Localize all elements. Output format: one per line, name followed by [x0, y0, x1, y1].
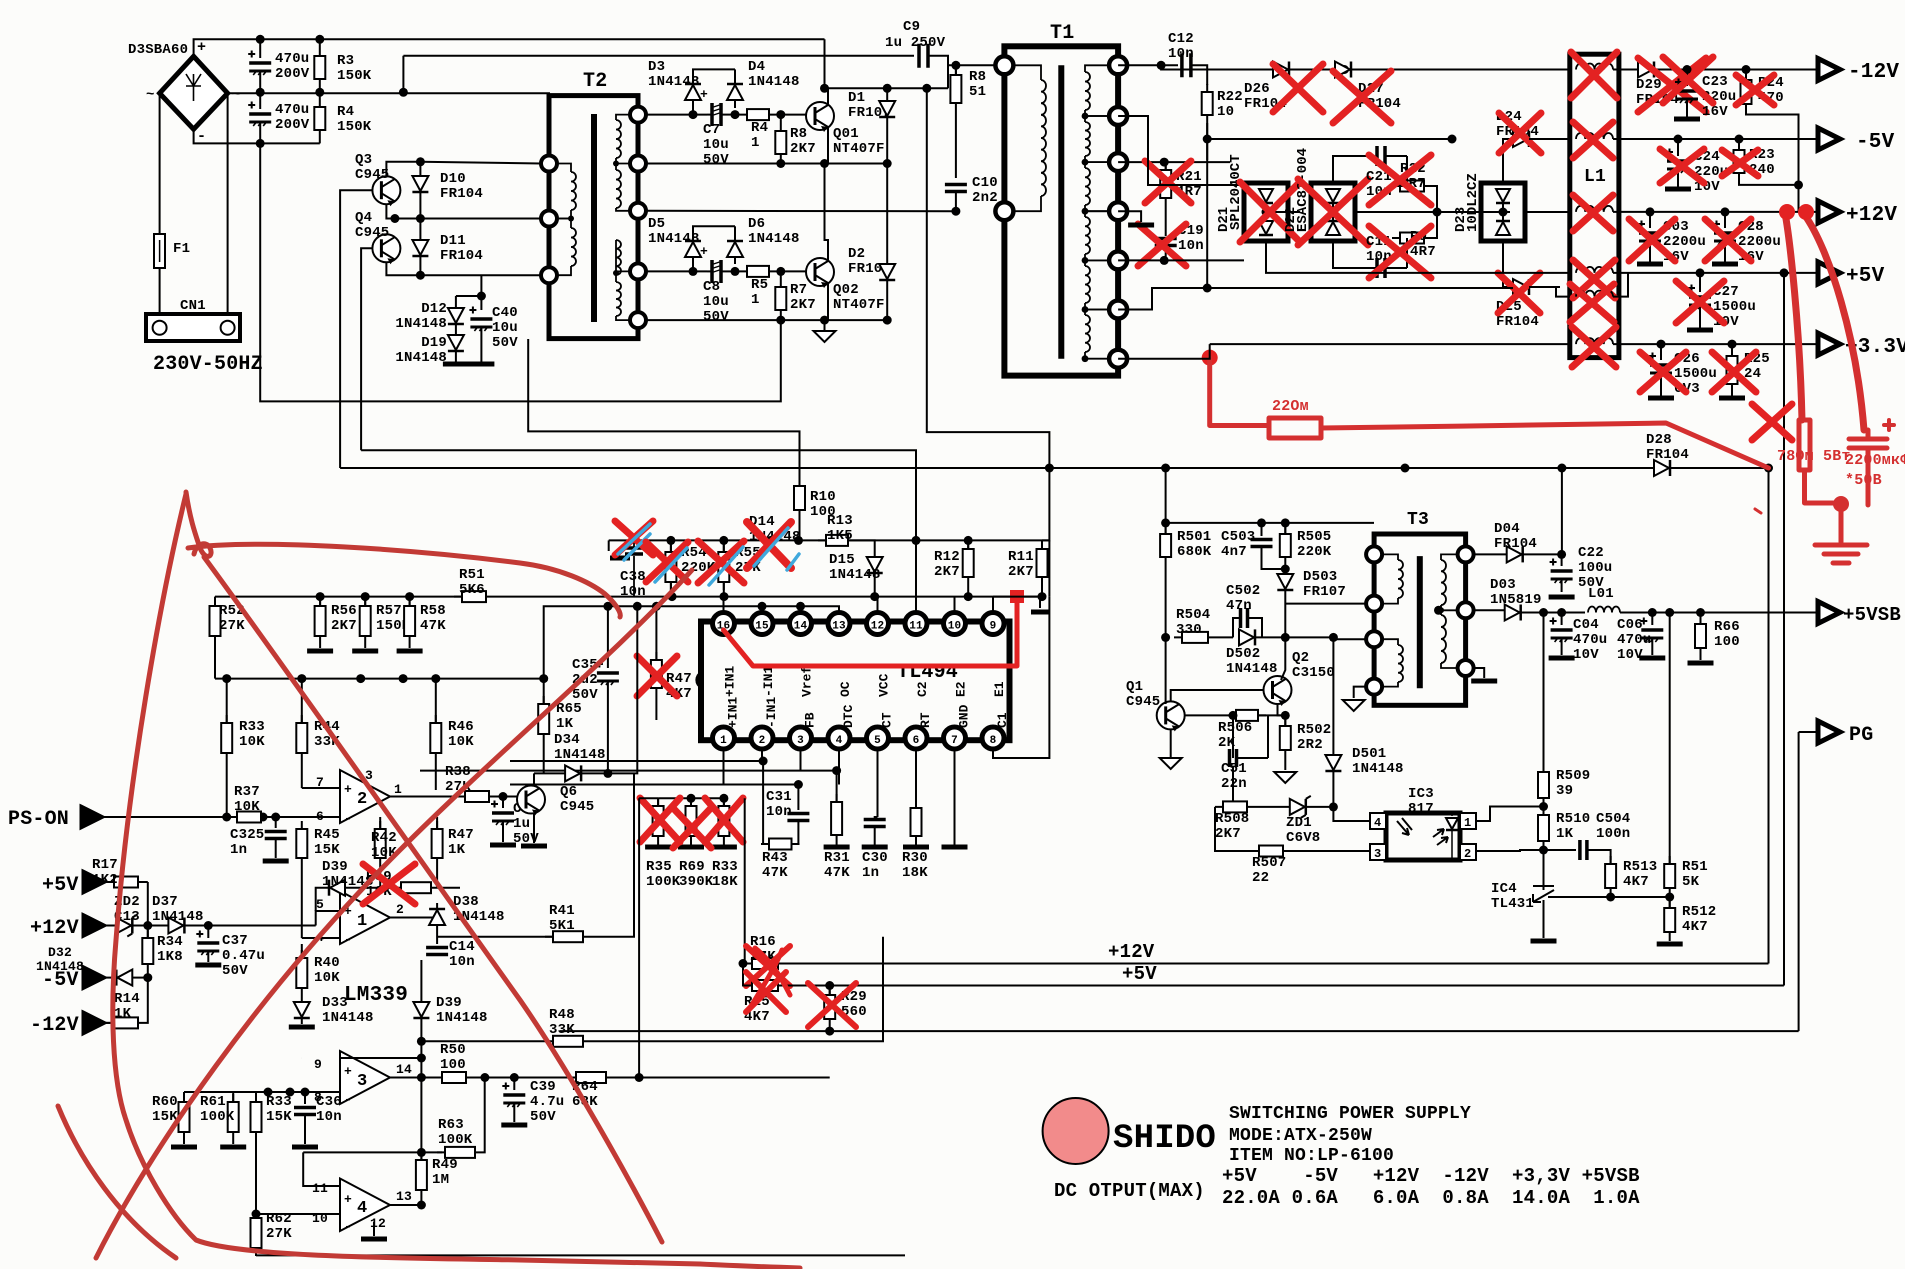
wire Q2 emitter down: [1278, 704, 1286, 715]
resistor R25 24: [1728, 340, 1737, 349]
diode D24 FR104: [1452, 138, 1503, 140]
wire pin6 RT down: [915, 749, 917, 808]
resistor R55 27K: [718, 544, 729, 590]
x-mark L1 coil1: [1571, 52, 1617, 98]
capacitor C03 2200u 16V: [1646, 207, 1655, 216]
resistor R52 27K: [214, 597, 216, 606]
resistor R51 5K: [1664, 856, 1675, 896]
svg-text:11: 11: [909, 621, 923, 633]
svg-text:F1: F1: [173, 241, 190, 257]
x-mark over C03: [1629, 219, 1675, 261]
svg-text:1: 1: [720, 735, 727, 747]
svg-text:+5VSB: +5VSB: [1843, 604, 1901, 626]
wire D28 row: [340, 467, 1768, 469]
diode D39a symbol: [319, 888, 321, 898]
ground stub T1 pin4: [1118, 211, 1141, 222]
resistor R8 51 (snubber): [951, 61, 960, 70]
capacitor C31 10n: [797, 785, 799, 811]
capacitor C8 10u 50V: [712, 260, 721, 283]
L1 coil +5V b: [1576, 291, 1613, 297]
wire -5V row: [1118, 115, 1152, 117]
svg-text:3: 3: [797, 735, 804, 747]
wire D22 mid to +12V rail: [1355, 211, 1510, 213]
resistor R45 15K: [301, 817, 303, 829]
wire op4 output: [390, 1204, 421, 1206]
resistor R7 2K7: [775, 279, 786, 318]
svg-text:DC OTPUT(MAX): DC OTPUT(MAX): [1054, 1180, 1205, 1202]
svg-text:2: 2: [396, 902, 404, 917]
comparator 3 LM339: [340, 1051, 390, 1104]
+5VSB rail: [1539, 608, 1548, 617]
diode D10 FR104: [419, 162, 421, 176]
terminal -5V: [1818, 128, 1840, 150]
wire T3 top rail left drop: [1165, 523, 1167, 534]
wire op3 minus row: [256, 1091, 340, 1093]
diode D39 lower 1N4148: [420, 960, 422, 1002]
IC TL494 body: [701, 622, 1010, 741]
capacitor C11 10n: [1377, 258, 1385, 278]
optocoupler IC3 817: [1386, 813, 1460, 860]
wire T1 pin5 row: [1118, 259, 1244, 261]
wire Q3 emitter to Q4 collector node: [386, 204, 420, 219]
wire row to C35: [544, 678, 609, 680]
inductor L01: [1588, 607, 1620, 613]
diode D2 FR107: [886, 164, 888, 265]
wire Q02 emitter row: [646, 319, 887, 321]
svg-text:6: 6: [913, 735, 920, 747]
transistor Q6 C945: [517, 786, 545, 816]
junction D12/C40: [419, 274, 421, 276]
T2 right internal wires: [616, 115, 630, 120]
T1 primary coil: [1041, 80, 1046, 196]
resistor R4 1 (driver): [739, 109, 777, 120]
svg-text:78Ом 5Вт: 78Ом 5Вт: [1777, 448, 1851, 465]
T2 secondary coils right: [616, 120, 621, 158]
capacitor C36 10n: [304, 1092, 306, 1104]
capacitor C35 2u2 50V: [608, 606, 610, 668]
svg-text:SWITCHING POWER SUPPLY: SWITCHING POWER SUPPLY: [1229, 1104, 1471, 1124]
wire +3.3V out of L1: [1613, 343, 1818, 345]
svg-text:4: 4: [357, 1199, 367, 1218]
blue strokes D14: [754, 528, 799, 570]
svg-text:1: 1: [1464, 816, 1471, 830]
transistor Q4 C945: [372, 234, 400, 264]
wire ground return bus: [560, 1030, 1799, 1032]
resistor R51 5K6: [454, 591, 494, 602]
svg-text:E1: E1: [992, 681, 1007, 697]
svg-text:C1210n: C1210n: [1168, 31, 1194, 62]
capacitor C40 10u 50V: [469, 307, 492, 332]
svg-text:1: 1: [394, 782, 402, 797]
capacitor C14 10n: [436, 925, 438, 944]
x-mark L1 coil3: [1573, 195, 1613, 231]
red resistor 78Ohm 5W: [1799, 420, 1841, 503]
wire op4 ground: [373, 1222, 375, 1236]
wires around D22: [1333, 156, 1371, 185]
wire left verticals below TL494: [638, 798, 640, 1077]
resistor R504 330: [1165, 637, 1167, 700]
T2 left internal wires: [557, 164, 571, 173]
wire E1 stub: [1017, 597, 1030, 610]
capacitor C12 10n: [1182, 53, 1191, 77]
ground under D19: [443, 362, 469, 367]
wire +5V out of L1: [1613, 272, 1818, 274]
wire -5V out of L1: [1613, 138, 1818, 140]
wire T1 pin6 link: [1118, 288, 1207, 310]
resistors R35 R69 R33 crossed: [639, 788, 745, 790]
resistor R47 4K7 crossed: [655, 606, 657, 660]
red ground: [1815, 504, 1867, 563]
resistor R64 68K: [568, 1072, 614, 1083]
diode D27 FR104: [1344, 69, 1570, 71]
capacitor C27 1500u 10V: [1696, 268, 1705, 277]
capacitor C04 470u 10V: [1561, 613, 1563, 626]
wire Q6 emitter: [533, 813, 535, 843]
resistor R30 18K: [911, 800, 922, 844]
resistor R42 10K: [375, 821, 386, 866]
x-mark over R23: [1722, 150, 1758, 176]
svg-text:VCC: VCC: [877, 673, 892, 697]
blue stroke R55: [709, 547, 743, 585]
resistor R22b 4R7: [1392, 181, 1432, 192]
svg-text:22Ом: 22Ом: [1272, 398, 1309, 415]
svg-text:SHIDO: SHIDO: [1113, 1120, 1216, 1158]
resistor R48 33K: [421, 1040, 545, 1042]
red cross big stroke A: [204, 557, 662, 1242]
red scribble R16/R15: [750, 948, 790, 1008]
wire row y784: [510, 784, 798, 786]
wire comparator supply row: [215, 678, 544, 680]
terminal -5V left: [83, 967, 105, 989]
svg-text:C4010u50V: C4010u50V: [492, 305, 518, 351]
capacitor C19 10n crossed: [1155, 239, 1177, 246]
svg-text:+12V: +12V: [1108, 941, 1155, 963]
transistor Q02 NT407F: [806, 258, 834, 288]
svg-text:R4833K: R4833K: [549, 1007, 575, 1038]
red cross big stroke B: [96, 570, 692, 1258]
wire +5V to node: [147, 882, 149, 926]
wire +3.3V into L1: [1559, 286, 1561, 288]
svg-text:2: 2: [357, 790, 367, 809]
svg-text:+12V: +12V: [1846, 204, 1897, 227]
svg-text:2200мкФ: 2200мкФ: [1845, 452, 1905, 469]
capacitor C22 100u 50V: [1557, 550, 1566, 559]
wire Q3 collector row: [386, 162, 541, 176]
svg-text:R122K7: R122K7: [934, 549, 960, 580]
capacitor C7 10u 50V: [712, 103, 721, 126]
svg-text:-IN1: -IN1: [764, 697, 779, 728]
diode D501 1N4148: [1332, 637, 1334, 755]
connector CN1: [146, 314, 240, 341]
diode D11 FR104: [419, 219, 421, 241]
x-mark over R47: [637, 656, 677, 696]
resistor R13 1K5: [818, 535, 856, 546]
svg-text:15: 15: [755, 621, 769, 633]
wire D25 +5V second into L1: [1529, 287, 1570, 297]
resistor R22 10: [1202, 84, 1213, 123]
T2 primary coil left lower: [571, 228, 576, 266]
wire TL494 upper pins row: [544, 606, 839, 678]
svg-text:C352u250V: C352u250V: [572, 657, 598, 703]
svg-text:R112K7: R112K7: [1008, 549, 1034, 580]
L1 coil +3.3V: [1576, 338, 1613, 344]
wire -5V row left segment: [1207, 138, 1452, 140]
red x-mark near resistor: [1752, 404, 1792, 440]
diode D32 1N4148: [105, 977, 117, 979]
node dots mid rail: [256, 88, 265, 97]
svg-text:14: 14: [794, 621, 808, 633]
resistor R61 100K: [232, 1092, 234, 1102]
wire bridge mid rail: [228, 93, 549, 95]
capacitor C12b 1u 50V: [499, 792, 508, 801]
svg-text:R562K7: R562K7: [331, 603, 357, 634]
wire to D12/C40 node: [480, 275, 482, 296]
resistor R21 4R7 crossed: [1118, 161, 1230, 163]
wire pin16 up: [723, 597, 725, 615]
L1 coil -12V: [1576, 64, 1613, 70]
svg-text:8: 8: [990, 735, 997, 747]
resistor R40 10K: [301, 944, 303, 958]
x-mark over D29: [1638, 58, 1706, 112]
wire Q01 emitter row: [646, 163, 887, 165]
wire Q4 node to T2: [395, 218, 548, 220]
terminal -12V left: [83, 1012, 105, 1034]
resistor R63 100K: [303, 1151, 442, 1153]
rectifier D21 SBL2040CT: [1244, 183, 1288, 241]
svg-text:R131K5: R131K5: [827, 513, 853, 544]
svg-text:+: +: [197, 39, 206, 56]
wire T3 tap to D03: [1434, 606, 1443, 615]
svg-text:IC3817: IC3817: [1408, 786, 1434, 817]
wire T1 pin3 to D21: [1118, 116, 1244, 185]
wire R22 snub vertical: [1206, 123, 1208, 139]
rectifier D22 ESAC83-004: [1192, 162, 1310, 185]
rectifier D23 10DL2CZ: [1118, 280, 1480, 310]
diode D38 1N4148: [436, 903, 438, 918]
svg-text:~: ~: [232, 87, 241, 103]
svg-text:R3310K: R3310K: [239, 719, 265, 750]
resistor R8 2K7: [775, 123, 786, 162]
terminal +3.3V: [1818, 333, 1840, 355]
wire D14/R13 row: [609, 539, 1050, 541]
wire op1 out row: [460, 888, 583, 937]
svg-text:+IN1: +IN1: [723, 666, 738, 697]
wire row y771: [420, 770, 837, 772]
wire to Q01 base: [777, 114, 806, 116]
svg-text:7: 7: [951, 735, 958, 747]
resistor R502 2R2: [1284, 715, 1286, 726]
svg-text:+: +: [344, 782, 352, 797]
svg-text:R3827K: R3827K: [445, 764, 471, 795]
wire +5V into L1: [1266, 241, 1570, 273]
transformer T2: [549, 96, 638, 339]
wire pin2 down: [761, 749, 763, 761]
T2 left pins: [541, 156, 557, 172]
wire row y761: [510, 760, 763, 762]
resistor R33c 15K: [267, 1092, 269, 1102]
x-mark over R33b: [705, 798, 743, 842]
svg-text:GND: GND: [957, 704, 972, 728]
svg-text:-: -: [344, 811, 352, 826]
diode D28 FR104: [1654, 460, 1670, 476]
resistor R9 4R7: [1392, 233, 1432, 244]
x-mark over C19: [1138, 224, 1186, 266]
wire Vref rail LM339: [215, 596, 462, 598]
wire T2 pin3 row to C10: [646, 210, 956, 212]
svg-text:1: 1: [357, 912, 367, 931]
svg-text:R171K2: R171K2: [92, 857, 118, 888]
resistor R3 150K: [314, 48, 325, 87]
wire T3 pin4 to D04: [1474, 553, 1506, 555]
x-mark over R55: [698, 541, 744, 583]
svg-text:-5V: -5V: [1856, 131, 1895, 154]
wire T2 pin1 row: [646, 114, 707, 116]
wire TL431 ref to divider: [1544, 896, 1611, 898]
svg-text:9: 9: [990, 621, 997, 633]
wire bridge right to CN1: [227, 93, 229, 321]
wire bridge top rail: [194, 39, 825, 56]
svg-text:R3018K: R3018K: [902, 850, 928, 881]
svg-text:2: 2: [759, 735, 766, 747]
T1 secondary coils: [1085, 72, 1090, 110]
resistor R54 220K: [665, 544, 676, 590]
wire op3 plus: [340, 1057, 421, 1059]
resistor R58 47K: [409, 597, 411, 606]
diode D5 1N4148: [693, 226, 735, 271]
svg-text:11: 11: [312, 1181, 328, 1196]
T1 left pins: [995, 56, 1013, 74]
TL494 pins bottom: [713, 727, 735, 749]
wire +12V out of L1: [1613, 211, 1818, 213]
resistor R37 10K: [229, 812, 269, 823]
resistor R57 150K: [364, 597, 366, 606]
wire C9 rail drop: [402, 56, 404, 93]
svg-text:L01: L01: [1588, 586, 1614, 602]
red wire from +12V rail: [1785, 213, 1802, 420]
logo circle SHIDO: [1043, 1098, 1109, 1164]
blue strokes C38: [618, 524, 650, 560]
svg-text:R50100: R50100: [440, 1042, 466, 1073]
T3 coils right: [1441, 560, 1446, 605]
x-mark L1 coil4: [1573, 260, 1615, 298]
wire op3 output row: [390, 1077, 439, 1079]
resistor R49 1M: [420, 1152, 422, 1160]
red left vertical stroke: [113, 494, 700, 1264]
svg-text:R4610K: R4610K: [448, 719, 474, 750]
diode D03 1N5819: [1505, 605, 1521, 621]
wire op2 output: [390, 796, 462, 798]
capacitor C26 1500u 6V3: [1657, 340, 1666, 349]
comparator 1 LM339: [340, 891, 390, 944]
wire ZD1 node down to IC3: [1333, 807, 1371, 821]
svg-text:R66100: R66100: [1714, 619, 1740, 650]
wire IC3 pin2 right: [1476, 850, 1544, 852]
T1 secondary internal wires: [1085, 65, 1110, 72]
resistor R66 100: [1696, 608, 1705, 617]
wire Q02 collector: [825, 164, 829, 262]
x-mark over D25: [1498, 273, 1540, 313]
comparator 4 LM339: [340, 1179, 390, 1232]
L1 coil +12V: [1576, 206, 1613, 212]
terminal +12V: [1818, 201, 1840, 223]
svg-text:-12V: -12V: [30, 1014, 79, 1037]
wire pin10 up: [954, 597, 956, 615]
x-mark over C23: [1663, 57, 1713, 103]
wire pin12 up: [877, 597, 879, 615]
wire D503 to T3 pin2: [1285, 599, 1374, 601]
resistor R509 39: [1543, 613, 1545, 773]
red wire 22 Ohm from T1: [1202, 350, 1218, 366]
capacitor C39 4.7u 50V: [513, 1078, 515, 1091]
svg-text:R4010K: R4010K: [314, 955, 340, 986]
svg-text:C2: C2: [915, 681, 930, 697]
choke L1 box: [1570, 54, 1619, 357]
svg-text:R3710K: R3710K: [234, 784, 260, 815]
wire op4 plus row: [303, 1152, 340, 1186]
diode D26 FR104: [1273, 62, 1289, 78]
resistor R512 4K7: [1664, 900, 1675, 940]
wire -5V into L1: [1529, 138, 1570, 140]
wire pin5 CT down: [877, 749, 879, 817]
wire op4 minus row: [256, 1213, 340, 1215]
resistor R506 2K: [1233, 714, 1285, 716]
svg-text:+: +: [700, 244, 708, 259]
wire C9 branch down: [947, 56, 949, 89]
svg-text:C1410n: C1410n: [449, 939, 475, 970]
capacitor C9 1u 250V: [403, 55, 914, 57]
resistor R44 33K: [301, 679, 303, 723]
wire +5V b out of L1: [1613, 273, 1628, 297]
wire +12V sense vertical: [1768, 470, 1770, 964]
L1 coil -5V: [1576, 133, 1613, 139]
wire pin14 up: [800, 606, 802, 615]
wire Q2 collector: [1281, 637, 1285, 680]
svg-text:12: 12: [370, 1216, 386, 1231]
capacitor C503 4n7: [1261, 523, 1263, 536]
wire +12V through D23 to L1: [1525, 211, 1570, 213]
x-mark over C11/R9: [1369, 226, 1431, 278]
resistor R11 2K7: [1041, 540, 1043, 549]
diode D33 symbol: [294, 1002, 310, 1018]
wire to Q02 base: [777, 270, 806, 272]
svg-text:C1: C1: [995, 712, 1010, 728]
svg-text:R4347K: R4347K: [762, 850, 788, 881]
T1 right pins: [1109, 56, 1127, 74]
red bottom tail to right: [700, 1264, 800, 1268]
wire T3 left bottom pin ground: [1354, 687, 1366, 698]
svg-text:R3147K: R3147K: [824, 850, 850, 881]
wire feedback row W2: [361, 450, 916, 615]
capacitor C325 1n: [275, 817, 277, 828]
diode D4 1N4148: [734, 69, 736, 108]
svg-text:+5V: +5V: [1122, 963, 1157, 985]
wire D27 to L1: [1404, 68, 1406, 70]
svg-text:5: 5: [316, 897, 324, 912]
terminal +5VSB: [1818, 602, 1840, 624]
x-mark L1 coil6: [1572, 327, 1616, 367]
x-mark over R69: [673, 808, 711, 848]
bridge rectifier D3SBA60: [160, 56, 228, 129]
svg-text:13: 13: [832, 621, 846, 633]
x-mark over C27: [1676, 281, 1724, 323]
wire T1 pin r1 to C12: [1118, 64, 1178, 66]
resistor R43 47K: [761, 839, 800, 850]
resistor R31 47K: [836, 771, 838, 802]
svg-text:-IN1: -IN1: [761, 666, 776, 697]
svg-text:R5847K: R5847K: [420, 603, 446, 634]
x-mark over R29: [808, 983, 856, 1027]
svg-text:R501680K: R501680K: [1177, 529, 1212, 560]
